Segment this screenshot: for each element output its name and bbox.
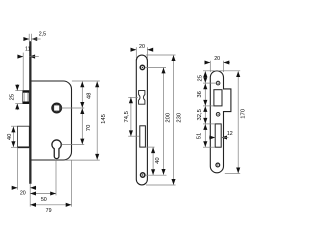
svg-text:20: 20: [214, 56, 220, 62]
svg-text:79: 79: [46, 208, 52, 214]
svg-text:230: 230: [177, 112, 183, 123]
svg-text:25: 25: [10, 93, 16, 100]
svg-text:2,5: 2,5: [39, 31, 46, 37]
svg-text:74,5: 74,5: [124, 110, 130, 122]
svg-text:25: 25: [198, 74, 204, 81]
svg-text:40: 40: [155, 157, 161, 164]
svg-text:36: 36: [197, 90, 203, 97]
svg-text:12: 12: [227, 131, 233, 137]
svg-text:32,5: 32,5: [197, 108, 203, 120]
svg-text:48: 48: [86, 92, 92, 99]
svg-text:70: 70: [86, 124, 92, 131]
svg-text:51: 51: [196, 133, 202, 140]
svg-text:145: 145: [101, 113, 107, 124]
svg-text:20: 20: [20, 191, 26, 197]
svg-text:50: 50: [41, 197, 47, 203]
svg-text:40: 40: [7, 133, 13, 140]
svg-text:20: 20: [139, 44, 145, 50]
svg-text:200: 200: [165, 112, 171, 123]
svg-text:170: 170: [240, 108, 246, 119]
svg-text:11: 11: [25, 47, 31, 53]
